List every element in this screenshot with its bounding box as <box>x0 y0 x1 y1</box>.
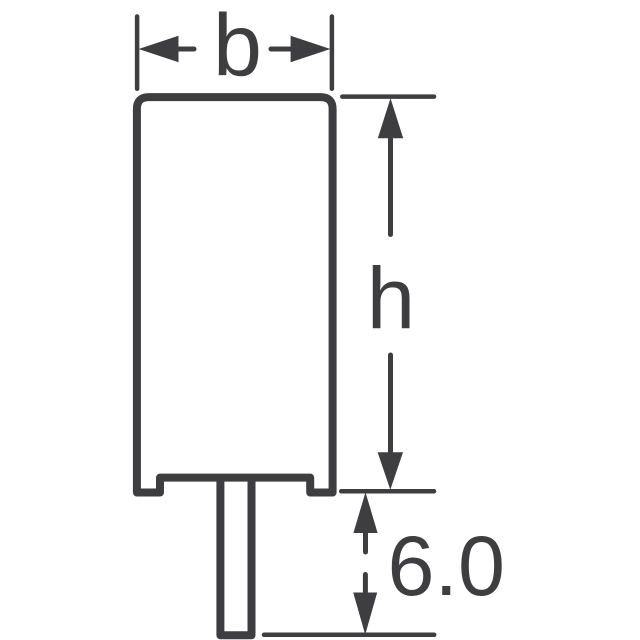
6.0 dimension upper shaft <box>363 529 368 552</box>
svg-text:6.0: 6.0 <box>388 519 505 613</box>
capacitor body outline <box>137 97 333 492</box>
b dimension left shaft <box>175 47 194 52</box>
extension line left (b) <box>135 17 140 89</box>
6.0 dimension up arrowhead <box>353 492 377 533</box>
extension line bottom (h) <box>341 489 434 494</box>
svg-text:h: h <box>367 251 415 348</box>
h dimension upper shaft <box>388 134 393 235</box>
extension line top (h) <box>342 94 434 99</box>
b dimension left arrowhead <box>139 36 179 63</box>
6.0 dimension down arrowhead <box>353 593 377 635</box>
b dimension right arrowhead <box>291 36 331 63</box>
lead (pin) <box>220 478 251 636</box>
extension line right (b) <box>330 17 335 89</box>
h dimension down arrowhead <box>378 452 403 490</box>
svg-text:b: b <box>213 0 262 94</box>
h dimension up arrowhead <box>378 98 403 138</box>
extension line bottom (6.0) <box>264 633 434 638</box>
b dimension right shaft <box>271 47 294 52</box>
h dimension lower shaft <box>388 355 393 456</box>
6.0 dimension lower shaft <box>363 575 368 597</box>
